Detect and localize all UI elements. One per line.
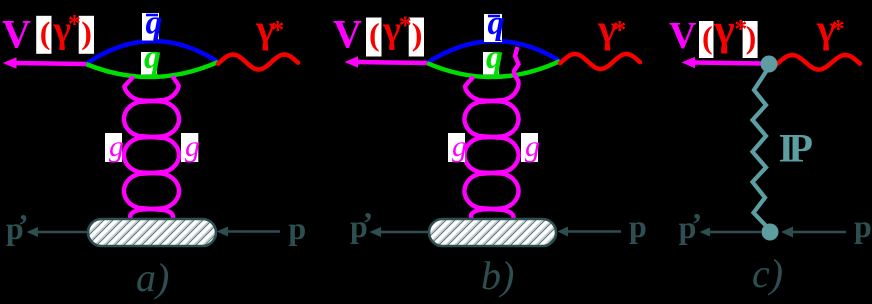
svg-text:): ) (412, 16, 423, 52)
svg-text:*: * (399, 11, 412, 40)
svg-text:’: ’ (363, 205, 374, 241)
svg-text:(: ( (702, 19, 713, 55)
svg-text:q: q (488, 5, 505, 42)
svg-text:b): b) (481, 253, 514, 298)
svg-text:g: g (109, 130, 124, 163)
svg-text:c): c) (752, 251, 783, 296)
svg-text:*: * (613, 16, 626, 45)
svg-text:): ) (746, 19, 757, 55)
svg-text:V: V (2, 12, 31, 57)
svg-text:p: p (854, 208, 872, 244)
svg-text:’: ’ (18, 207, 29, 243)
svg-text:q: q (144, 39, 161, 76)
svg-text:q: q (146, 5, 163, 42)
svg-text:*: * (68, 9, 81, 38)
svg-text:(: ( (369, 16, 380, 52)
svg-text:g: g (452, 130, 467, 163)
svg-text:V: V (333, 12, 362, 57)
svg-text:(: ( (40, 14, 51, 50)
svg-text:q: q (486, 39, 503, 76)
svg-text:p: p (288, 210, 306, 246)
svg-text:g: g (185, 130, 200, 163)
svg-text:P: P (789, 126, 813, 171)
svg-text:’: ’ (692, 206, 703, 242)
svg-text:g: g (525, 130, 540, 163)
svg-text:γ: γ (713, 5, 735, 54)
svg-text:a): a) (136, 255, 169, 300)
svg-text:V: V (669, 15, 697, 57)
svg-text:): ) (81, 14, 92, 50)
svg-text:p: p (629, 208, 647, 244)
svg-text:*: * (832, 14, 845, 43)
svg-text:*: * (271, 16, 284, 45)
